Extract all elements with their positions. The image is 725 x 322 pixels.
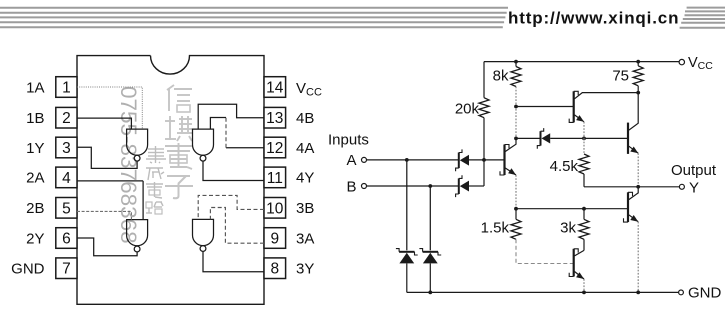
schottky diode D1 (input A) [456, 149, 505, 171]
svg-text:1Y: 1Y [26, 140, 44, 157]
svg-text:1B: 1B [26, 110, 44, 127]
resistor 8k [493, 62, 521, 87]
watermark char 電(small) [146, 182, 163, 198]
wire pin4 to G2 input B [77, 181, 143, 220]
watermark char 路 [146, 202, 163, 214]
NAND gate G4 [193, 129, 214, 161]
svg-text:6: 6 [62, 231, 71, 248]
watermark char 電 [165, 143, 192, 169]
node dot Q3 base tap [514, 105, 518, 109]
svg-text:5: 5 [62, 200, 71, 217]
pin box 1 [56, 77, 77, 98]
watermark char 成 [146, 168, 164, 180]
svg-text:4A: 4A [296, 140, 314, 157]
pin box 2 [56, 107, 77, 128]
svg-text:14: 14 [266, 80, 284, 97]
pin box 5 [56, 198, 77, 219]
banner hatch lines right [680, 8, 725, 28]
GND rail [407, 291, 679, 293]
NAND gate G3 [193, 219, 214, 251]
pin box 6 [56, 228, 77, 249]
svg-text:10: 10 [266, 200, 284, 217]
terminal GND [679, 290, 684, 295]
svg-text:Inputs: Inputs [328, 132, 369, 149]
node dot Y [636, 185, 640, 189]
wire 8k to Q1 collector node (gray) [515, 87, 517, 139]
pin numbers left [62, 80, 71, 278]
wire Q4 emitter down (gray) [637, 153, 639, 187]
svg-text:1: 1 [62, 80, 71, 97]
svg-text:4: 4 [62, 170, 71, 187]
wire Q3 base row [516, 106, 574, 108]
svg-text:http://www.xinqi.cn: http://www.xinqi.cn [508, 8, 679, 27]
svg-text:4.5k: 4.5k [550, 158, 579, 175]
terminal Y [679, 184, 684, 189]
node dot VCC/8k [514, 60, 518, 64]
svg-text:9: 9 [270, 231, 279, 248]
wire pin10 to G3 input A [198, 195, 264, 219]
pin box 10 [264, 198, 286, 219]
wire G4 output to pin11 [203, 161, 264, 180]
svg-text:75: 75 [612, 68, 629, 85]
svg-text:8: 8 [270, 261, 279, 278]
node dot 3k top [582, 207, 586, 211]
svg-text:8k: 8k [493, 68, 509, 85]
node dot diode row left [514, 137, 518, 141]
node dot VCC/75 [636, 60, 640, 64]
transistor Q5 (output pulldown) [624, 187, 639, 222]
svg-text:7: 7 [62, 261, 71, 278]
wire pin5 to G2 input A [77, 211, 131, 219]
resistor 75 [612, 62, 643, 93]
diode row left wire [516, 137, 541, 139]
NAND gate G2 [127, 220, 148, 252]
watermark char 子 [165, 176, 193, 198]
wire input B row [367, 185, 459, 187]
svg-text:3A: 3A [296, 230, 314, 247]
node dot GND Q6 [582, 291, 586, 295]
svg-text:A: A [346, 152, 356, 169]
wire B row up to A node [483, 160, 485, 186]
node B clamp tap [428, 184, 432, 188]
resistor 4.5k [550, 138, 589, 186]
pin box 3 [56, 137, 77, 158]
wire clamp drop B [429, 186, 431, 250]
pin box 9 [264, 228, 286, 249]
node dot GND clamp B [428, 291, 432, 295]
pin box 14 [264, 77, 286, 98]
schottky clamp diode D4 [396, 249, 418, 293]
wire clamp drop A [406, 160, 408, 250]
transistor Q6 (squaring) [569, 249, 584, 279]
svg-text:2A: 2A [26, 170, 44, 187]
svg-text:1.5k: 1.5k [481, 220, 510, 237]
svg-text:4B: 4B [296, 110, 314, 127]
node dot diode row right [582, 137, 586, 141]
transistor Q1 (phase splitter) [500, 138, 516, 175]
transistor Q3 (darlington driver) [569, 91, 638, 122]
svg-text:3B: 3B [296, 200, 314, 217]
wire Q6 emitter down (gray) [583, 279, 585, 292]
pin box 11 [264, 167, 286, 188]
NAND gate G1 [127, 129, 148, 161]
svg-text:B: B [346, 178, 356, 195]
svg-text:3k: 3k [560, 220, 576, 237]
wire pin1 to G1 input B [77, 87, 142, 129]
wire Q5 emitter down (gray) [637, 222, 639, 293]
node A clamp tap [405, 158, 409, 162]
pin box 4 [56, 167, 77, 188]
node A 20k junction [482, 158, 486, 162]
resistor 20k [455, 62, 489, 160]
pin box 12 [264, 137, 286, 158]
svg-text:4Y: 4Y [296, 170, 314, 187]
banner hatch lines left [0, 8, 508, 27]
node dot 75/collector [636, 91, 640, 95]
VCC rail [484, 61, 679, 63]
svg-text:GND: GND [11, 261, 45, 278]
wire input A row [367, 159, 459, 161]
svg-text:11: 11 [267, 170, 283, 187]
svg-text:2: 2 [62, 110, 71, 127]
resistor 1.5k [481, 209, 521, 240]
wire G1 output to pin3 [77, 147, 137, 168]
wire Q1 emitter down (gray) [515, 175, 517, 209]
svg-text:2Y: 2Y [26, 230, 44, 247]
svg-text:2B: 2B [26, 200, 44, 217]
wire 1.5k to Q6 base (gray) [516, 239, 574, 263]
node dot GND Q5 [636, 291, 640, 295]
resistor 3k [560, 209, 589, 251]
svg-text:13: 13 [266, 110, 283, 127]
svg-text:12: 12 [266, 140, 283, 157]
terminal A [362, 157, 367, 162]
left pin labels [11, 79, 45, 277]
schottky clamp diode D5 [419, 249, 441, 293]
svg-text:3: 3 [62, 140, 71, 157]
schottky diode D3 [537, 128, 628, 149]
wire pin2 to G1 input A [77, 118, 131, 129]
svg-text:GND: GND [688, 285, 722, 302]
pin box 7 [56, 258, 77, 279]
wire G3 output to pin8 [203, 251, 264, 271]
wire Q5 base row [516, 208, 628, 210]
svg-text:20k: 20k [455, 101, 480, 118]
schottky diode D2 (input B) [456, 175, 484, 197]
watermark char 琪 [165, 116, 193, 141]
svg-text:Y: Y [689, 179, 699, 196]
right pin labels [296, 110, 314, 278]
pin numbers right [266, 80, 284, 278]
wire Q3 emitter down (gray) [583, 122, 585, 139]
terminal VCC [679, 59, 684, 64]
wire pin9 to G3 input B [210, 208, 264, 244]
node dot Q5 base row left [514, 207, 518, 211]
IC body U1 [77, 56, 264, 305]
pin box 8 [264, 258, 286, 279]
wire pin13 to G4 input A [198, 104, 264, 129]
svg-text:1A: 1A [26, 79, 44, 96]
svg-text:Output: Output [671, 162, 717, 179]
pin box 13 [264, 107, 286, 128]
transistor Q4 (darlington output) [628, 93, 638, 154]
terminal B [362, 184, 367, 189]
watermark char 集 [146, 146, 166, 163]
wire output Y row [584, 186, 679, 188]
watermark char 信 [167, 85, 192, 112]
wire G2 output to pin6 [77, 238, 137, 256]
wire pin12 to G4 input B [210, 118, 264, 148]
svg-text:3Y: 3Y [296, 261, 314, 278]
